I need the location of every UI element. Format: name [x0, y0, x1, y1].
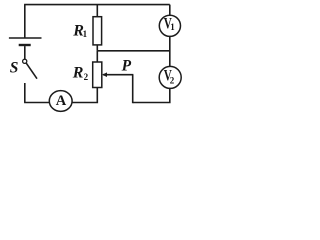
wire: wiper horizontal into R2: [103, 74, 133, 76]
wire: bottom wire from corner to ammeter: [24, 102, 49, 104]
wire: left wire from battery positive up to top-left corner: [24, 5, 26, 38]
wiper arrowhead P pointing left into R2: [102, 72, 107, 77]
svg-text:P: P: [122, 58, 132, 75]
voltmeter V1 circle: [159, 15, 180, 36]
svg-text:2: 2: [170, 75, 175, 85]
wire: V2 bottom lead to bottom-right corner then left: [133, 89, 170, 103]
switch S blade (open): [26, 63, 37, 79]
svg-text:1: 1: [83, 29, 88, 39]
wire: V1 top lead from top-right corner: [169, 5, 171, 15]
wire: ammeter to R2 bottom corner: [72, 88, 97, 103]
wire: R1 bottom lead down to junction: [96, 45, 98, 51]
resistor R2 box (rheostat): [93, 62, 102, 88]
wire: battery negative down to switch pivot: [24, 46, 26, 59]
switch S pivot circle: [23, 59, 27, 63]
svg-text:R: R: [72, 65, 84, 82]
resistor R1 box: [93, 17, 102, 45]
wire: R2 top lead up to junction: [96, 51, 98, 62]
wire: R1 top lead from top wire down to R1: [96, 5, 98, 17]
svg-text:S: S: [10, 60, 19, 77]
voltmeter V2 circle: [159, 66, 181, 88]
battery positive plate (long): [9, 37, 42, 39]
wire: wiper riser up from bottom wire: [132, 75, 134, 104]
battery negative plate (short, thick): [19, 44, 31, 46]
svg-text:1: 1: [170, 22, 175, 32]
wire: switch bottom terminal down to bottom-left corner: [24, 83, 26, 103]
wire: middle wire from R1/R2 junction to right column: [97, 50, 170, 52]
ammeter A circle: [49, 91, 72, 112]
wire: top wire from top-left corner to top-right corner: [24, 4, 170, 6]
svg-text:A: A: [56, 93, 67, 109]
wire: V1 bottom to V2 top link: [169, 37, 171, 67]
svg-text:2: 2: [84, 72, 89, 82]
